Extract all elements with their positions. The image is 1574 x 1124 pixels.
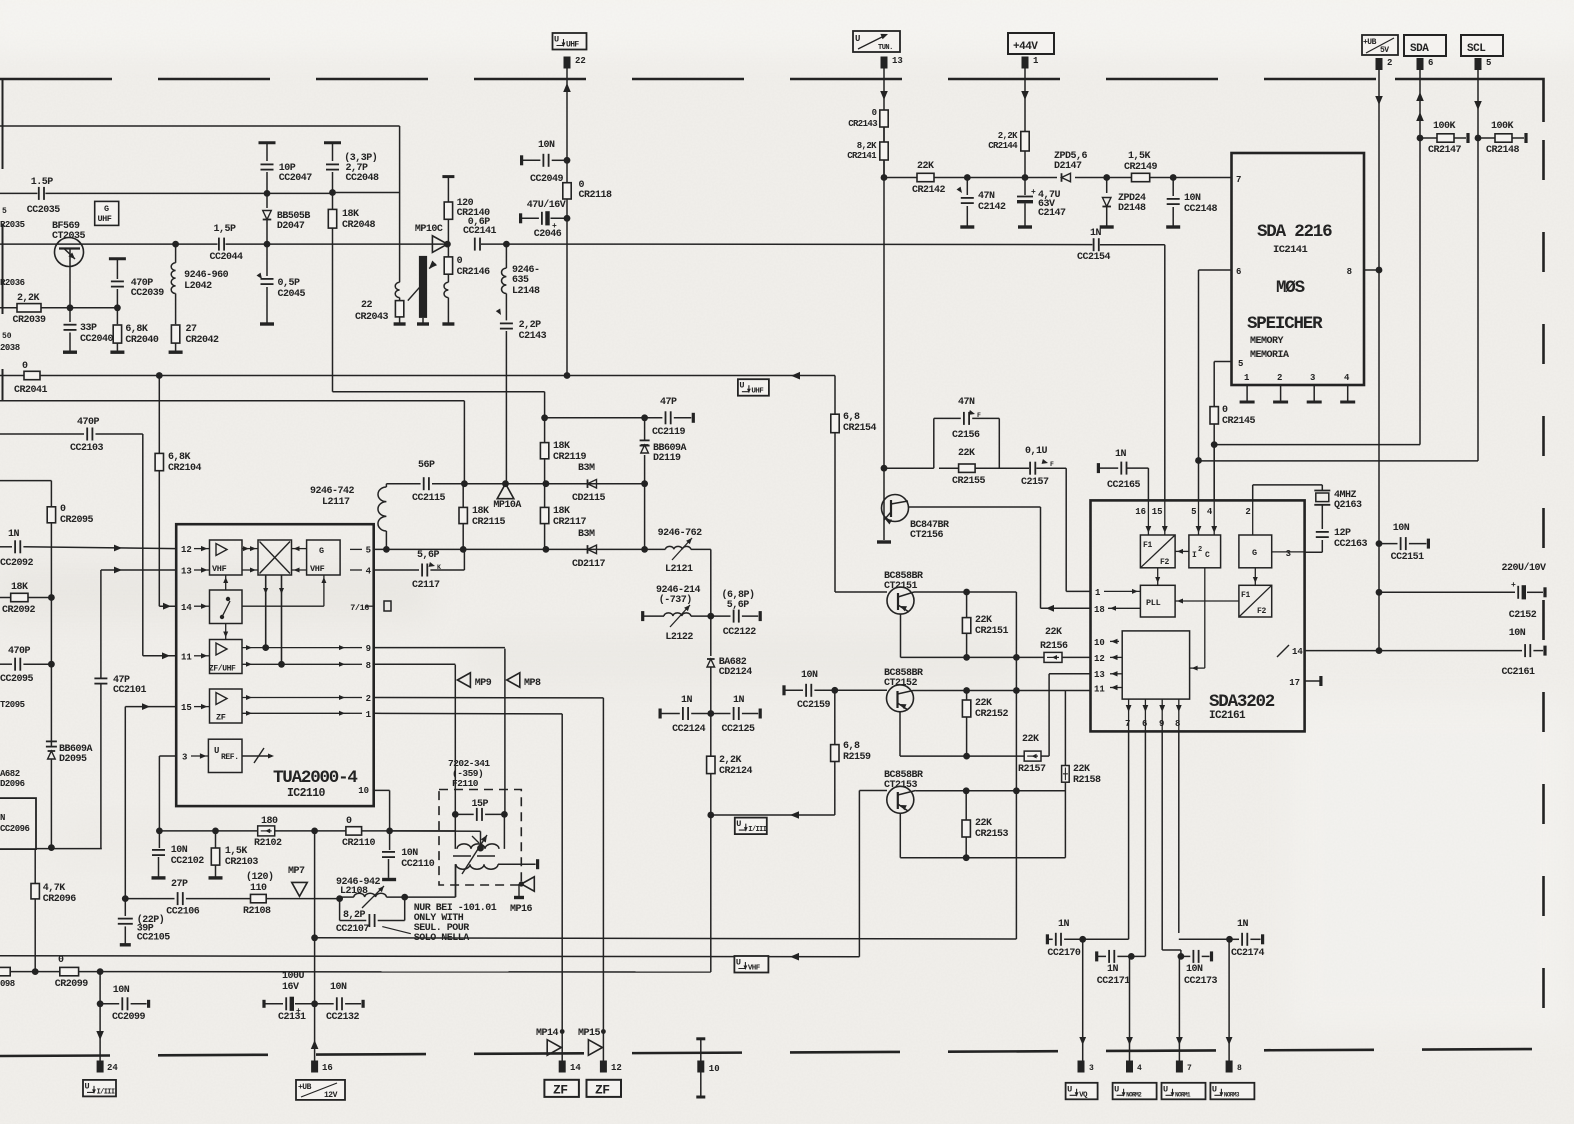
diode D2095 BB609A <box>46 741 93 847</box>
block G <box>1239 535 1272 568</box>
node MP10C junction <box>444 241 451 248</box>
svg-text:1,5P: 1,5P <box>214 224 237 235</box>
svg-text:5: 5 <box>366 546 371 556</box>
svg-text:6,8: 6,8 <box>843 741 860 752</box>
terminal U-NORM3 <box>1210 1083 1254 1100</box>
wire CC2154 corner down to pin15 <box>1164 245 1166 502</box>
transistor Q CT2151 BC858BR <box>884 571 923 614</box>
wire to CR2149 <box>1107 177 1132 179</box>
svg-text:K: K <box>437 564 441 571</box>
svg-text:MEMORY: MEMORY <box>1250 336 1284 347</box>
wire SCL column <box>1477 138 1479 461</box>
wire y815 to R2159 <box>711 811 835 819</box>
svg-text:9246-960: 9246-960 <box>184 270 229 281</box>
testpoint MP10A <box>493 484 521 511</box>
wire rail corner to CR2154 <box>834 376 836 415</box>
svg-text:R2102: R2102 <box>254 838 282 849</box>
amp box ZF/UHF <box>209 640 242 674</box>
node CC2106 junction <box>122 895 129 902</box>
svg-text:470P: 470P <box>8 646 31 657</box>
svg-text:C2143: C2143 <box>519 331 547 342</box>
wire CC2103 corner to pin11 <box>143 434 176 659</box>
pin 5 (SCL) <box>1475 58 1492 70</box>
node CR2151 bottom junction <box>963 654 970 661</box>
svg-text:6: 6 <box>1428 58 1433 68</box>
svg-text:10: 10 <box>709 1064 720 1074</box>
svg-text:C2117: C2117 <box>412 580 440 591</box>
transformer core <box>453 835 495 874</box>
capacitor C2045 0,5P <box>257 244 306 324</box>
svg-text:L2042: L2042 <box>184 281 212 292</box>
testpoint MP8 <box>507 673 541 689</box>
node CC2039 junction <box>114 304 121 311</box>
wire pin11 link <box>1065 690 1090 692</box>
svg-text:12P: 12P <box>1334 528 1351 539</box>
svg-text:U: U <box>1212 1084 1217 1094</box>
node 15P right <box>501 811 508 818</box>
node TUN junction <box>881 174 888 181</box>
svg-text:14: 14 <box>1292 647 1303 657</box>
svg-text:SDA: SDA <box>1410 43 1429 55</box>
SDA3202 pin16 wire <box>1127 468 1149 500</box>
node CC2151 junction <box>1376 540 1383 547</box>
node CR2096 bottom junction <box>32 968 39 975</box>
capacitor C2156 47N <box>934 397 1000 468</box>
node CC2049 junction <box>564 157 571 164</box>
svg-text:0,5P: 0,5P <box>278 278 301 289</box>
resistor CR2148 100K <box>1478 121 1526 156</box>
IC2141 text SDA 2216 <box>1257 222 1332 256</box>
svg-text:NORM1: NORM1 <box>1175 1091 1191 1098</box>
svg-text:10N: 10N <box>171 845 188 856</box>
svg-text:D2119: D2119 <box>653 453 681 464</box>
switch box <box>210 590 243 624</box>
svg-text:110: 110 <box>250 883 267 894</box>
svg-text:1N: 1N <box>1090 228 1102 239</box>
node x1016 row690 junction <box>1013 687 1020 694</box>
wire pin9 drop <box>504 649 506 815</box>
TUA internal VHF-mixer arrows <box>242 546 258 572</box>
SDA3202 internal arrows top <box>1146 500 1253 535</box>
SDA2216 bottom pins <box>1240 373 1356 402</box>
svg-text:13: 13 <box>181 567 192 577</box>
capacitor CC2105 39P <box>118 899 170 945</box>
svg-text:IC2161: IC2161 <box>1209 710 1246 722</box>
wire CT2151 emitter row <box>901 614 1017 657</box>
capacitor CC2173 10N <box>1181 950 1218 987</box>
svg-text:CR2118: CR2118 <box>579 190 613 201</box>
node CC2099 junction <box>97 968 104 975</box>
node CR2119 top junction <box>541 414 548 421</box>
svg-text:22K: 22K <box>958 448 975 459</box>
wire pin5 to CR2115 <box>374 548 464 550</box>
svg-text:L2121: L2121 <box>665 564 693 575</box>
capacitor C2131 100U 16V <box>264 971 315 1023</box>
svg-text:SDA3202: SDA3202 <box>1209 692 1275 712</box>
svg-text:CR2147: CR2147 <box>1428 145 1462 156</box>
svg-text:CC2124: CC2124 <box>672 724 706 735</box>
node CC2048 junction <box>329 189 336 196</box>
node 15P left <box>452 811 459 818</box>
node R2102 junction <box>311 828 318 835</box>
svg-text:18K: 18K <box>553 441 570 452</box>
svg-text:CC2107: CC2107 <box>336 924 370 935</box>
wire D2119 column <box>644 484 646 550</box>
svg-text:1: 1 <box>1033 56 1039 66</box>
pin7 label <box>1236 175 1241 185</box>
wire pin10 route <box>389 790 391 831</box>
testpoint MP16 <box>510 877 534 915</box>
wire SDA to CR2145 <box>1214 444 1420 446</box>
svg-text:6: 6 <box>1236 267 1241 277</box>
wire box bottom to CC2101 <box>36 848 102 850</box>
zener D2148 ZPD24 <box>1100 178 1146 228</box>
svg-text:47P: 47P <box>660 397 677 408</box>
svg-text:4: 4 <box>1207 507 1213 517</box>
page left dashed border <box>2 79 4 400</box>
svg-text:ZF: ZF <box>595 1083 610 1098</box>
pin 24 <box>97 1061 119 1074</box>
svg-text:CR2154: CR2154 <box>843 423 877 434</box>
svg-text:CR2148: CR2148 <box>1486 145 1520 156</box>
svg-text:L2122: L2122 <box>665 632 693 643</box>
wire main y244 right <box>567 243 1092 246</box>
svg-text:MP16: MP16 <box>510 904 533 915</box>
resistor CR2147 100K <box>1420 121 1468 156</box>
svg-text:635: 635 <box>512 275 529 286</box>
svg-text:2,2K: 2,2K <box>998 131 1018 141</box>
svg-text:VHF: VHF <box>748 965 761 973</box>
svg-text:10N: 10N <box>1509 628 1526 639</box>
svg-text:10N: 10N <box>538 140 555 151</box>
svg-text:0: 0 <box>22 361 28 372</box>
terminal U-I/III bottom <box>83 1080 116 1097</box>
tuner slug MP10C <box>408 256 437 324</box>
crystal Q2163 4MHZ <box>1314 485 1362 529</box>
svg-text:10: 10 <box>1094 638 1105 648</box>
I2C to F1F2 arrow <box>1175 549 1189 554</box>
svg-text:13: 13 <box>1094 670 1105 680</box>
block F1/F2 left <box>1140 535 1175 568</box>
TUA switch to GVHF wire <box>242 575 326 606</box>
svg-text:33P: 33P <box>80 323 97 334</box>
node D2148 junction <box>1103 174 1110 181</box>
node D2095 junction <box>48 844 55 851</box>
node MP10A junction <box>502 480 509 487</box>
amp box ZF <box>210 689 243 723</box>
node CR2124 bottom junction <box>707 812 714 819</box>
svg-text:CR2043: CR2043 <box>355 312 389 323</box>
svg-text:18K: 18K <box>342 209 359 220</box>
transformer F2110 primary <box>455 814 504 851</box>
terminal U-NORM1 <box>1162 1083 1206 1100</box>
node CR2153 top junction <box>963 787 970 794</box>
svg-text:L2108: L2108 <box>340 886 368 897</box>
svg-text:C2156: C2156 <box>952 430 980 441</box>
node L2108 left junction <box>336 895 343 902</box>
svg-text:100K: 100K <box>1433 121 1456 132</box>
svg-text:CC2099: CC2099 <box>112 1012 146 1023</box>
svg-text:U: U <box>739 381 744 391</box>
svg-text:+UB: +UB <box>298 1083 312 1092</box>
svg-text:100K: 100K <box>1491 121 1514 132</box>
partial IC box left edge <box>0 798 36 849</box>
terminal flag U-TUN <box>853 31 900 52</box>
block I2C <box>1189 535 1221 568</box>
node L2122 junction <box>707 613 714 620</box>
svg-text:ZF: ZF <box>216 713 226 723</box>
svg-text:MP8: MP8 <box>524 678 541 689</box>
wire pin15 route <box>125 703 176 898</box>
svg-text:ZF: ZF <box>553 1083 568 1098</box>
svg-text:F1: F1 <box>1143 541 1153 550</box>
node CR2110 junction <box>386 828 393 835</box>
svg-text:CC2171: CC2171 <box>1097 976 1131 987</box>
node CC2161 junction <box>1376 647 1383 654</box>
svg-text:CR2103: CR2103 <box>225 857 259 868</box>
pin 4 NORM2 <box>1126 1061 1142 1074</box>
svg-text:5: 5 <box>1486 58 1491 68</box>
node CC2174 junction <box>1226 936 1233 943</box>
wire CR2048 to CR2119 col <box>333 392 545 418</box>
svg-text:2: 2 <box>1198 546 1202 554</box>
svg-text:D2047: D2047 <box>277 221 305 232</box>
svg-text:CR2096: CR2096 <box>43 894 77 905</box>
node C2152 junction <box>1376 589 1383 596</box>
capacitor CC2040 33P <box>63 308 114 352</box>
TUA pin8 label <box>350 661 371 671</box>
wire pin22 UHF <box>563 69 571 161</box>
resistor CR2095 0 <box>47 504 93 747</box>
resistor CR2119 18K <box>540 418 586 484</box>
TUA pin10 label <box>358 786 389 796</box>
node CC2170 junction <box>1079 936 1086 943</box>
svg-text:0: 0 <box>1222 405 1228 416</box>
G to pin3 <box>1272 549 1305 559</box>
capacitor CC2101 47P <box>94 675 146 849</box>
svg-text:CR2152: CR2152 <box>975 709 1009 720</box>
svg-text:10N: 10N <box>1186 964 1203 975</box>
TUA internal switch arrows <box>223 575 228 640</box>
svg-text:CT2151: CT2151 <box>884 581 918 592</box>
capacitor CC2048 2,7P <box>324 143 379 193</box>
svg-text:3: 3 <box>182 753 187 763</box>
capacitor C2152 220U/10V <box>1379 562 1546 621</box>
TUA pin12 label <box>181 545 210 555</box>
wire CC2173 to pin7 <box>1176 956 1183 1060</box>
resistor R2157 22K <box>1018 734 1049 775</box>
svg-text:F1: F1 <box>1241 591 1251 600</box>
G to F1F2r arrow <box>1253 568 1258 586</box>
svg-text:+: + <box>1031 188 1036 197</box>
svg-text:2: 2 <box>1245 507 1250 517</box>
TUA pin5 label <box>350 546 371 556</box>
svg-text:1: 1 <box>1095 588 1101 598</box>
svg-text:L2117: L2117 <box>322 497 350 508</box>
svg-text:1,5K: 1,5K <box>225 846 248 857</box>
wire base CT2035 <box>0 243 56 245</box>
resistor R2159 6,8 <box>831 690 871 815</box>
SDA3202 pin1 label <box>1095 588 1140 598</box>
svg-text:MP10C: MP10C <box>415 224 443 235</box>
wire rail to F2110 <box>390 831 481 848</box>
flag U-VHF <box>734 953 799 973</box>
resistor CR2043 22 <box>355 282 406 324</box>
resistor CR2154 6,8 <box>831 412 877 592</box>
TUA mixer drop wires <box>262 575 285 668</box>
svg-text:2,2K: 2,2K <box>17 293 40 304</box>
svg-text:T2095: T2095 <box>0 700 25 710</box>
svg-text:U: U <box>554 35 559 45</box>
TUA pin1 label <box>350 710 372 720</box>
wire pin6 route <box>1199 270 1232 461</box>
svg-text:UHF: UHF <box>566 41 579 50</box>
svg-text:CC2048: CC2048 <box>346 173 380 184</box>
wire y940 long <box>315 938 1017 939</box>
svg-text:0: 0 <box>346 816 352 827</box>
terminal SDA <box>1404 35 1446 56</box>
svg-text:CT2152: CT2152 <box>884 678 918 689</box>
svg-text:3: 3 <box>1089 1064 1094 1073</box>
amp box G VHF <box>307 540 341 575</box>
IC U-IC2110 TUA2000-4 box <box>176 524 374 806</box>
svg-text:0,1U: 0,1U <box>1025 446 1048 457</box>
svg-text:U: U <box>855 34 860 44</box>
svg-text:C2152: C2152 <box>1509 610 1537 621</box>
I2C down to divider <box>1190 568 1205 671</box>
text CR2038 fragment <box>0 332 20 353</box>
svg-text:3: 3 <box>1286 549 1291 559</box>
capacitor CC2141 0,6P <box>463 217 497 251</box>
callout line <box>382 927 411 934</box>
svg-text:+: + <box>1511 581 1516 590</box>
svg-text:27P: 27P <box>171 879 188 890</box>
svg-text:+: + <box>552 222 557 231</box>
svg-text:9: 9 <box>1159 719 1164 729</box>
svg-text:CC2096: CC2096 <box>0 824 30 834</box>
svg-text:22K: 22K <box>975 615 992 626</box>
capacitor CC2095 470P <box>0 646 51 685</box>
svg-text:16: 16 <box>322 1063 333 1073</box>
svg-text:CR2048: CR2048 <box>342 220 376 231</box>
page top dashed border <box>0 78 1395 81</box>
resistor CR2152 22K <box>962 691 1008 757</box>
wire SDA down <box>1416 70 1424 138</box>
svg-text:7/16: 7/16 <box>350 603 369 613</box>
svg-text:8,2P: 8,2P <box>343 910 366 921</box>
svg-text:CC2105: CC2105 <box>137 933 171 944</box>
svg-text:8: 8 <box>366 661 371 671</box>
SDA3202 pin5 wire <box>1198 461 1200 501</box>
node CC2171 junction <box>1128 953 1135 960</box>
resistor CR2143 0 <box>848 108 888 129</box>
svg-text:1N: 1N <box>1058 919 1070 930</box>
pin 8 NORM3 <box>1226 1061 1242 1074</box>
wire CR2104 to pin14 <box>159 603 176 610</box>
TUA pin7/16 stub <box>384 601 391 611</box>
pin 13 (TUN) <box>881 56 903 69</box>
wire y400 rail <box>0 401 464 484</box>
transistor Q CT2153 BC858BR <box>884 770 923 813</box>
svg-text:5,6P: 5,6P <box>727 600 750 611</box>
svg-text:U: U <box>1067 1084 1072 1094</box>
resistor CR2103 1,5K <box>209 831 259 878</box>
transformer F2110 secondary <box>456 859 538 897</box>
wire CR2043 drop <box>399 126 401 282</box>
TUA pin4 label <box>350 567 372 577</box>
svg-text:CC2151: CC2151 <box>1391 552 1425 563</box>
IC2161 text SDA3202 <box>1209 692 1275 722</box>
terminal +UB/12V bottom <box>296 1080 345 1100</box>
SDA3202 top pin labels <box>1135 507 1251 517</box>
svg-text:I/III: I/III <box>748 826 766 834</box>
svg-text:5: 5 <box>2 207 7 216</box>
svg-text:CC2141: CC2141 <box>463 226 497 237</box>
svg-text:L2148: L2148 <box>512 286 540 297</box>
wire L2121 corner <box>691 549 711 616</box>
svg-text:F: F <box>1050 461 1054 468</box>
wire 47P rail <box>545 417 663 419</box>
svg-text:SCL: SCL <box>1467 43 1486 55</box>
svg-text:TUA2000-4: TUA2000-4 <box>273 768 357 788</box>
svg-text:+: + <box>296 1007 301 1016</box>
text F2110 <box>448 758 490 789</box>
svg-text:CR2110: CR2110 <box>342 838 376 849</box>
svg-text:CC2092: CC2092 <box>0 558 34 569</box>
svg-text:(120): (120) <box>246 871 274 883</box>
wire to D2147 <box>1025 177 1057 179</box>
resistor CR2092 18K <box>0 582 51 616</box>
svg-text:8,2K: 8,2K <box>857 141 877 151</box>
node CR2103 junction <box>212 828 219 835</box>
node CR2145 junction <box>1211 441 1218 448</box>
svg-text:R2035: R2035 <box>0 220 25 230</box>
pin 16 <box>311 1061 333 1074</box>
wire pin3 route <box>159 756 176 831</box>
node CR2153 bottom junction <box>963 854 970 861</box>
svg-text:C2131: C2131 <box>278 1012 306 1023</box>
svg-text:6,8K: 6,8K <box>168 452 191 463</box>
capacitor C2143 2,2P <box>496 309 547 484</box>
svg-text:CC2110: CC2110 <box>401 859 435 870</box>
U REF slash output <box>242 748 274 763</box>
IC2110 text TUA2000-4 <box>273 768 357 800</box>
terminal U-VQ <box>1066 1083 1098 1100</box>
resistor CR2117 18K <box>540 484 586 550</box>
svg-text:10: 10 <box>358 786 369 796</box>
svg-text:2: 2 <box>366 694 371 704</box>
node D2047 junction <box>264 241 271 248</box>
node CR2117 bottom junction <box>543 546 550 553</box>
diode CD2115 B3M <box>572 463 606 504</box>
svg-text:B3M: B3M <box>578 463 595 474</box>
svg-text:MP15: MP15 <box>578 1028 601 1039</box>
capacitor CC2161 10N <box>1379 628 1545 678</box>
text D2096 fragment <box>0 769 25 789</box>
svg-text:PLL: PLL <box>1146 598 1161 608</box>
svg-text:10N: 10N <box>1393 523 1410 534</box>
capacitor CC2049 10N <box>522 140 567 185</box>
svg-text:CR2117: CR2117 <box>553 517 587 528</box>
svg-text:CR2095: CR2095 <box>60 515 94 526</box>
SDA3202 divider outputs <box>1126 699 1182 731</box>
wire pin8 sda3202 route <box>1179 731 1230 939</box>
svg-text:R2157: R2157 <box>1018 764 1046 775</box>
svg-text:U: U <box>1114 1084 1119 1094</box>
svg-text:REF.: REF. <box>221 753 239 762</box>
svg-text:12: 12 <box>1094 654 1105 664</box>
resistor CR2124 2,2K <box>707 714 753 816</box>
